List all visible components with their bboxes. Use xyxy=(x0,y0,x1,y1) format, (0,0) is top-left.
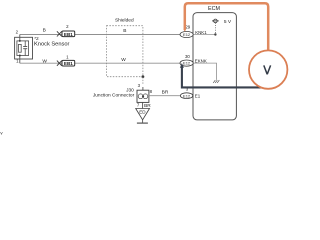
knock sensor outer box xyxy=(15,37,33,59)
connector EB1 box (W line) xyxy=(62,60,75,66)
ECM pin E1 (E12-3) oval xyxy=(180,93,192,99)
svg-text:BR: BR xyxy=(162,89,169,95)
svg-text:EKNK: EKNK xyxy=(195,59,207,64)
svg-text:W: W xyxy=(121,57,126,63)
5V supply symbol xyxy=(214,19,218,23)
wire BR (J30 pin 8 to ECM E1) xyxy=(149,95,181,97)
ECM pin KNK1 (E12-29) oval xyxy=(180,31,193,37)
shield drain wire (dashed) xyxy=(142,77,144,84)
wire KNK1 internal xyxy=(193,34,215,36)
svg-text:W: W xyxy=(42,59,47,65)
node: inner box bottom junction xyxy=(19,55,21,57)
knock sensor pin 1 stub xyxy=(19,56,21,64)
shielded cable dashed box xyxy=(107,26,143,77)
ECM pin EKNK (E12-30) oval xyxy=(180,60,193,66)
connector EB1 arrow (B line) xyxy=(57,31,62,36)
svg-text:B: B xyxy=(43,27,46,33)
svg-text:E12: E12 xyxy=(183,32,191,37)
svg-text:EB1: EB1 xyxy=(64,61,73,66)
node: shield drain junction dot xyxy=(142,75,145,78)
svg-text:EB1: EB1 xyxy=(64,32,73,37)
knock sensor pin 2 stub xyxy=(19,35,21,41)
svg-text:30: 30 xyxy=(185,54,190,59)
knock sensor piezo resistor element xyxy=(19,44,22,52)
svg-text:Knock Sensor: Knock Sensor xyxy=(34,41,70,47)
svg-text:Shielded: Shielded xyxy=(115,18,134,24)
connector EB1 box (B line) xyxy=(62,31,75,37)
ground ED triangle xyxy=(136,109,150,120)
svg-text:Junction Connector: Junction Connector xyxy=(93,92,135,98)
svg-text:B: B xyxy=(123,28,126,34)
J30 pin 3 stub xyxy=(142,87,144,90)
knock sensor inner box xyxy=(17,41,29,56)
ground stub below ED xyxy=(142,120,144,123)
junction connector J30 box xyxy=(137,90,149,102)
svg-text:E1: E1 xyxy=(195,93,201,98)
chassis ground (EKNK internal) xyxy=(213,80,215,83)
wire W (knock sensor pin 1 to ECM EKNK) xyxy=(20,62,180,64)
ECM box xyxy=(193,13,236,120)
connector EB1 arrow (W line) xyxy=(57,61,62,66)
node: inner box top junction xyxy=(19,40,21,42)
svg-text:KNK1: KNK1 xyxy=(195,30,207,35)
svg-text:5 V: 5 V xyxy=(224,19,232,25)
svg-text:E12: E12 xyxy=(183,61,191,66)
wire EKNK internal xyxy=(193,63,216,80)
ground bar xyxy=(137,122,148,124)
J30 pin 7 stub xyxy=(142,102,144,108)
wire B (knock sensor pin 2 to ECM KNK1) xyxy=(20,34,180,36)
voltmeter V xyxy=(249,50,287,88)
voltmeter negative lead (navy) xyxy=(182,65,268,87)
svg-text:ECM: ECM xyxy=(208,6,220,12)
svg-text:29: 29 xyxy=(185,25,190,30)
capacitor (piezo element) xyxy=(24,41,26,46)
voltmeter positive lead (orange) xyxy=(185,3,268,51)
svg-text:E12: E12 xyxy=(183,93,191,98)
svg-text:ED: ED xyxy=(139,109,146,114)
node: KNK1 internal junction dot xyxy=(214,33,216,35)
